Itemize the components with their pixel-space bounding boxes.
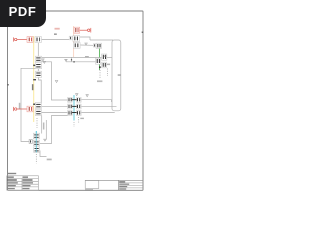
- transmission pair 3: [68, 111, 82, 116]
- junction on yellow y79.5: [33, 79, 36, 80]
- title rows text: [119, 181, 125, 182]
- junction on yellow y104: [33, 104, 35, 106]
- transmission pair 2: [68, 104, 82, 109]
- rotated net text x19.5: [19, 103, 21, 110]
- wire pair1 right: [81, 100, 111, 102]
- wire loop-left: [21, 68, 36, 141]
- wire y61.8 right seg: [66, 61, 96, 63]
- wire y40 long to loop: [90, 39, 113, 41]
- dashed x37 below stack2: [36, 118, 38, 128]
- dashed below cluster: [35, 154, 37, 164]
- dashes below cyan: [73, 122, 75, 127]
- left table: [7, 176, 39, 190]
- net green: [99, 48, 101, 71]
- tiny label 2: [54, 33, 57, 35]
- wire T-A right y37: [80, 37, 91, 40]
- output port red: [88, 28, 91, 33]
- title block small box: [85, 180, 99, 188]
- junction on yellow y65: [33, 65, 35, 67]
- junction dot on green: [99, 66, 101, 68]
- feedback left verticals: [41, 116, 43, 134]
- clock net cyan bottom-left: [35, 131, 37, 153]
- title block divider: [118, 180, 120, 190]
- transistor D: [96, 58, 101, 64]
- left table row5 text: [7, 188, 15, 189]
- stack2 T5: [35, 110, 41, 116]
- input source R1 red: [27, 37, 33, 43]
- dashed below pair3: [78, 117, 80, 123]
- frame tick left: [7, 84, 9, 86]
- comp box input black: [35, 37, 42, 43]
- bottom cluster B1: [33, 133, 39, 139]
- stub x71.5: [71, 57, 73, 61]
- clock net cyan overlay bottom cluster: [35, 131, 37, 153]
- gnd triangle y59 left: [42, 59, 45, 61]
- clock net cyan mid: [73, 95, 75, 121]
- stack1 T3: [36, 71, 42, 77]
- highlight net yellow: [33, 36, 35, 122]
- wire pair3 right: [81, 112, 114, 114]
- input port 2: [14, 107, 27, 111]
- wire y57.4 main: [42, 56, 102, 58]
- bottom cluster port: [29, 140, 32, 144]
- dash mark above E: [104, 56, 107, 57]
- transistor C: [96, 43, 101, 48]
- label right of loop: [118, 74, 121, 76]
- bottom cluster B2: [33, 140, 39, 146]
- gnd triangle bottom: [44, 139, 47, 141]
- transistor B: [73, 43, 80, 49]
- gate stub C: [93, 44, 96, 47]
- right loop rect: [112, 40, 121, 111]
- wire stack1 top pin: [37, 43, 39, 56]
- tiny red label top: [55, 28, 60, 30]
- stack1 T1: [35, 56, 41, 62]
- rotated net text x43.5: [43, 123, 45, 130]
- label below pair3: [80, 118, 84, 119]
- left table header text: [7, 173, 16, 174]
- wire pair2 left y106: [42, 105, 68, 107]
- sheet frame: [8, 11, 144, 190]
- gnd triangle a: [85, 43, 88, 45]
- stack1 T2: [35, 63, 41, 69]
- gnd triangle y59 mid: [65, 59, 68, 61]
- stack2 T4: [35, 103, 41, 109]
- red wire to port: [80, 29, 88, 31]
- gnd triangle above pairs 2: [86, 95, 89, 97]
- bottom cluster B3: [34, 147, 40, 153]
- left table row1 text: [7, 177, 14, 178]
- gnd triangle x44 y62: [43, 61, 46, 63]
- wire input1 to T-A: [42, 39, 73, 41]
- transistor A: [69, 36, 80, 42]
- PDF badge: [0, 0, 46, 27]
- top red comp: [74, 27, 80, 33]
- left table row2 text: [7, 179, 16, 180]
- wire y61.8 left seg: [42, 62, 68, 100]
- wire pair3 left y112.5: [42, 112, 68, 114]
- gnd label below green: [97, 80, 102, 82]
- left table row3 text: [7, 182, 17, 183]
- input source red 2: [27, 106, 33, 112]
- frame tick right: [142, 32, 144, 34]
- junction dots: [71, 59, 72, 60]
- comp F: [102, 62, 107, 68]
- dashed below green: [99, 70, 101, 79]
- wire y57.4 right stub: [107, 56, 112, 58]
- title block top line: [85, 179, 143, 181]
- transmission pair 1: [68, 97, 82, 102]
- gnd triangle above pairs 1: [76, 94, 79, 96]
- transistor E: [102, 54, 107, 60]
- label right of F: [107, 64, 110, 66]
- input port 1: [14, 37, 27, 41]
- wire stack1 bottom to stack2: [39, 78, 42, 103]
- wire y115.5: [40, 116, 68, 144]
- wire stack1 inner pin: [37, 69, 39, 71]
- gnd label bottom: [47, 159, 52, 161]
- sheet text: [85, 189, 93, 190]
- highlight net orange: [73, 26, 75, 57]
- gnd triangle y81: [55, 81, 58, 83]
- net label smudge near y57: [85, 56, 89, 58]
- left table row4 text: [7, 185, 16, 186]
- rotated net text x32.5: [32, 84, 34, 90]
- wire T-B right y45 to gate C: [81, 44, 94, 46]
- dashed below F: [107, 69, 109, 77]
- wire pair2 right: [81, 105, 116, 107]
- wire bottom hook: [40, 151, 47, 157]
